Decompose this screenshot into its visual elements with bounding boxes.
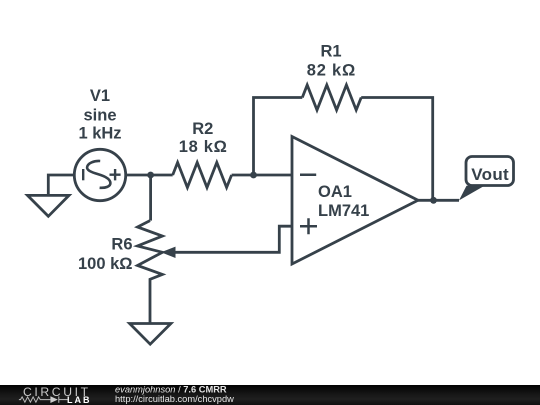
svg-text:http://circuitlab.com/chcvpdw: http://circuitlab.com/chcvpdw [115, 394, 234, 404]
svg-text:OA1: OA1 [318, 183, 352, 201]
svg-text:LAB: LAB [67, 395, 92, 405]
svg-text:100 kΩ: 100 kΩ [78, 255, 133, 273]
svg-text:LM741: LM741 [318, 202, 369, 220]
svg-text:V1: V1 [90, 87, 110, 105]
svg-text:18 kΩ: 18 kΩ [179, 138, 228, 156]
svg-text:R1: R1 [320, 43, 341, 61]
svg-text:1 kHz: 1 kHz [78, 125, 121, 143]
svg-text:82 kΩ: 82 kΩ [307, 62, 356, 80]
svg-text:R2: R2 [192, 120, 213, 138]
svg-text:R6: R6 [111, 235, 132, 253]
svg-text:Vout: Vout [471, 165, 509, 184]
svg-text:sine: sine [83, 106, 116, 124]
